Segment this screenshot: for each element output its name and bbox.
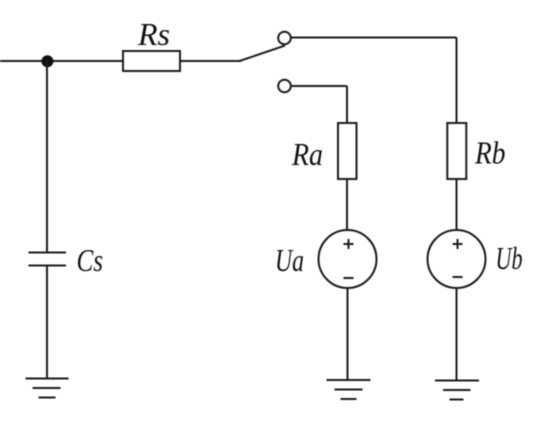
wire Ra to source Ua — [346, 179, 348, 230]
wire Cs to ground — [46, 266, 48, 379]
wire right column down to Rb — [456, 38, 458, 124]
wire Ua to ground — [347, 289, 349, 380]
ground of Ua — [327, 380, 371, 399]
wire left feed to node and Rs — [0, 60, 123, 62]
wire bottom contact to Ra column — [291, 85, 347, 87]
capacitor Cs top plate — [29, 252, 67, 254]
resistor Rs — [123, 51, 180, 71]
wire Ub to ground — [456, 289, 458, 381]
plus sign of Ub — [453, 239, 463, 249]
svg-text:Ra: Ra — [291, 136, 323, 172]
voltage source Ub — [428, 230, 486, 288]
plus sign of Ua — [344, 239, 354, 249]
minus sign of Ub — [453, 276, 463, 278]
wire Rb to source Ub — [456, 179, 458, 230]
ground of Cs — [26, 379, 69, 398]
wire node down to capacitor Cs — [46, 61, 48, 253]
capacitor Cs bottom plate — [29, 265, 67, 267]
resistor Ra — [338, 123, 357, 179]
svg-text:Rb: Rb — [474, 135, 505, 171]
minus sign of Ua — [344, 277, 354, 279]
wire top contact to right column — [291, 37, 457, 39]
svg-text:Rs: Rs — [137, 16, 170, 52]
wire down to Ra — [346, 86, 348, 123]
node A junction dot — [41, 55, 53, 67]
resistor Rb — [447, 123, 466, 179]
svg-text:Ub: Ub — [496, 240, 523, 276]
svg-text:Ua: Ua — [275, 242, 304, 278]
wire Rs to switch blade — [180, 60, 241, 62]
voltage source Ua — [319, 230, 377, 288]
ground of Ub — [435, 381, 479, 400]
switch S1 bottom contact — [278, 80, 291, 93]
switch S1 top contact — [278, 32, 291, 45]
switch S1 blade — [240, 46, 286, 61]
svg-text:Cs: Cs — [77, 242, 104, 278]
